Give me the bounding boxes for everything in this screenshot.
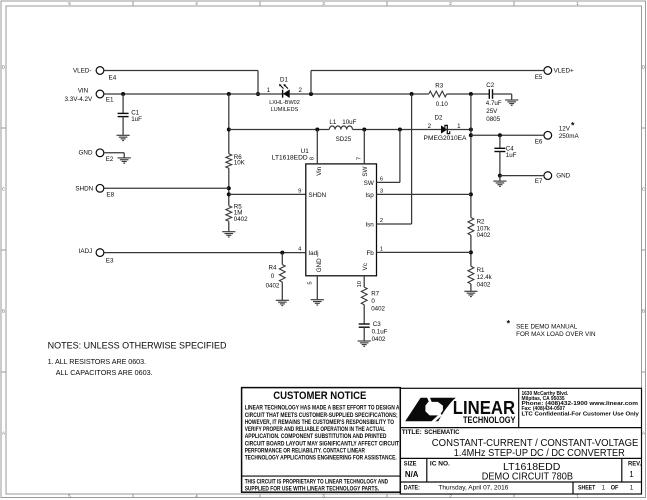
svg-text:0402: 0402 bbox=[371, 305, 385, 312]
turret E2 (GND) bbox=[96, 149, 104, 157]
svg-text:A: A bbox=[2, 431, 6, 436]
svg-text:10: 10 bbox=[357, 281, 363, 287]
svg-text:Vin: Vin bbox=[316, 166, 323, 175]
capacitor C4 bbox=[494, 148, 505, 151]
svg-text:TECHNOLOGY APPLICATIONS ENGINE: TECHNOLOGY APPLICATIONS ENGINEERING FOR … bbox=[245, 456, 397, 462]
junction SHDN pin wire bbox=[227, 192, 231, 196]
junction Vin pin 8 tap bbox=[315, 128, 319, 132]
svg-text:E6: E6 bbox=[535, 138, 543, 145]
svg-text:R1: R1 bbox=[477, 267, 485, 274]
wire C1 lead bottom bbox=[122, 117, 124, 136]
svg-text:LTC Confidential-For Customer: LTC Confidential-For Customer Use Only bbox=[522, 411, 640, 417]
svg-text:1uF: 1uF bbox=[131, 116, 142, 123]
svg-text:DATE:: DATE: bbox=[404, 485, 420, 492]
wire C2 to ground corner bbox=[493, 93, 512, 95]
wire C4 to E7 bbox=[500, 175, 544, 177]
svg-text:0402: 0402 bbox=[477, 282, 491, 289]
wire R7 to C3 bbox=[363, 305, 365, 324]
op-amp U1 LT1618EDD body bbox=[306, 164, 377, 276]
svg-text:3: 3 bbox=[380, 189, 383, 195]
svg-text:TITLE:: TITLE: bbox=[402, 429, 422, 436]
wire Vin pin 8 lead bbox=[316, 130, 318, 164]
svg-text:Thursday, April 07, 2016: Thursday, April 07, 2016 bbox=[438, 485, 508, 492]
svg-text:C3: C3 bbox=[373, 321, 381, 328]
inductor L1 bbox=[329, 126, 352, 130]
svg-text:E3: E3 bbox=[106, 258, 114, 265]
svg-text:1: 1 bbox=[267, 87, 271, 94]
svg-text:B: B bbox=[642, 309, 645, 314]
wire VLED+ top run bbox=[311, 70, 544, 72]
svg-text:1.4MHz STEP-UP DC / DC CONVERT: 1.4MHz STEP-UP DC / DC CONVERTER bbox=[454, 448, 625, 459]
wire E4 corner drop to VIN node bbox=[257, 71, 259, 95]
wire R2 to Fb node bbox=[470, 235, 472, 266]
svg-text:5: 5 bbox=[308, 281, 314, 284]
svg-text:CIRCUIT THAT MEETS CUSTOMER-SU: CIRCUIT THAT MEETS CUSTOMER-SUPPLIED SPE… bbox=[245, 413, 398, 419]
svg-text:1: 1 bbox=[630, 485, 634, 492]
svg-text:LXHL-BW02: LXHL-BW02 bbox=[269, 100, 300, 106]
svg-text:E8: E8 bbox=[106, 191, 114, 198]
svg-text:E4: E4 bbox=[109, 75, 117, 82]
svg-text:12.4k: 12.4k bbox=[477, 274, 493, 281]
resistor R6 bbox=[226, 154, 232, 168]
wire VIN line E1 to R3 bbox=[104, 93, 429, 95]
ground at C3 bbox=[358, 341, 371, 346]
svg-text:1: 1 bbox=[380, 247, 383, 253]
wire divider to SHDN pin 9 bbox=[229, 193, 306, 195]
svg-text:25V: 25V bbox=[486, 108, 498, 115]
svg-text:E7: E7 bbox=[535, 178, 543, 185]
wire D2 cathode to output node bbox=[447, 129, 471, 131]
wire E3 to Iadj pin 4 bbox=[104, 252, 306, 254]
svg-text:E5: E5 bbox=[535, 74, 543, 81]
junction E6 wire tap bbox=[469, 133, 473, 137]
wire Isn pin 2 stub bbox=[377, 223, 412, 225]
junction SW pin 7 tap bbox=[362, 128, 366, 132]
svg-text:SEE DEMO MANUAL: SEE DEMO MANUAL bbox=[516, 324, 578, 331]
svg-text:GND: GND bbox=[79, 150, 93, 157]
wire E8 to divider bbox=[104, 187, 229, 189]
svg-text:VERIFY PROPER AND RELIABLE OPE: VERIFY PROPER AND RELIABLE OPERATION IN … bbox=[245, 427, 386, 433]
turret E1 (VIN) bbox=[96, 90, 104, 98]
svg-text:4: 4 bbox=[195, 493, 198, 498]
wire C3 to ground bbox=[363, 327, 365, 341]
svg-text:LUMILEDS: LUMILEDS bbox=[271, 107, 299, 113]
svg-text:0402: 0402 bbox=[372, 336, 386, 343]
junction SW pin 6 tap bbox=[398, 128, 402, 132]
resistor R7 bbox=[361, 287, 367, 305]
svg-text:SHEET: SHEET bbox=[578, 485, 595, 492]
svg-text:10K: 10K bbox=[234, 160, 246, 167]
svg-text:Isp: Isp bbox=[365, 192, 374, 199]
turret E4 (VLED-) bbox=[96, 67, 104, 75]
svg-text:TECHNOLOGY: TECHNOLOGY bbox=[463, 415, 516, 426]
svg-text:2: 2 bbox=[298, 87, 302, 94]
svg-text:E2: E2 bbox=[106, 156, 114, 163]
wire E2 to ground bbox=[104, 152, 124, 154]
svg-text:10uF: 10uF bbox=[342, 119, 356, 126]
wire Isp pin 3 bbox=[377, 193, 471, 195]
svg-text:2: 2 bbox=[449, 1, 452, 6]
svg-text:APPLICATION. COMPONENT SUBSTI: APPLICATION. COMPONENT SUBSTITUTION AND … bbox=[245, 434, 387, 440]
ground at C1 bbox=[117, 135, 130, 140]
svg-text:VIN: VIN bbox=[78, 87, 89, 94]
svg-text:Fb: Fb bbox=[366, 250, 374, 257]
svg-text:1uF: 1uF bbox=[506, 152, 517, 159]
wire R4 lead bottom bbox=[281, 282, 283, 300]
customer notice box bbox=[242, 388, 401, 493]
svg-text:0: 0 bbox=[371, 298, 375, 305]
diode D1 (LED LXHL-BW02) bbox=[279, 84, 290, 98]
svg-text:D1: D1 bbox=[280, 77, 288, 84]
wire output to E6 bbox=[471, 134, 544, 136]
resistor R2 bbox=[468, 218, 474, 236]
wire output node vertical bbox=[470, 94, 472, 218]
wire GND pin 5 lead bbox=[316, 276, 318, 300]
wire R1 to ground bbox=[470, 284, 472, 291]
svg-text:SW: SW bbox=[364, 180, 374, 187]
svg-text:L1: L1 bbox=[329, 119, 336, 126]
wire L1 to D2 bbox=[353, 129, 442, 131]
junction C4 tap bbox=[498, 133, 502, 137]
svg-text:CUSTOMER NOTICE: CUSTOMER NOTICE bbox=[273, 390, 366, 402]
svg-text:0.1uF: 0.1uF bbox=[372, 328, 388, 335]
turret E5 (VLED+) bbox=[544, 67, 552, 75]
svg-text:12V: 12V bbox=[559, 125, 571, 132]
junction Isp tap bbox=[469, 192, 473, 196]
svg-text:OF: OF bbox=[611, 485, 619, 492]
svg-text:4.7uF: 4.7uF bbox=[486, 100, 502, 107]
svg-text:6: 6 bbox=[380, 177, 383, 183]
wire Fb pin 1 bbox=[377, 251, 471, 253]
resistor R1 bbox=[468, 266, 474, 284]
junction D2 output bbox=[469, 128, 473, 132]
turret E3 (IADJ) bbox=[96, 249, 104, 257]
wire R4 lead top bbox=[281, 253, 283, 265]
svg-text:9: 9 bbox=[298, 189, 301, 195]
wire VIN down to R6 bbox=[228, 94, 230, 154]
svg-text:C2: C2 bbox=[486, 82, 494, 89]
svg-text:IADJ: IADJ bbox=[79, 248, 93, 255]
capacitor C1 bbox=[118, 113, 129, 116]
ground at R4 bbox=[276, 300, 289, 305]
svg-text:8: 8 bbox=[310, 157, 316, 160]
Linear Technology logo glyph bbox=[405, 396, 456, 422]
svg-text:SW: SW bbox=[362, 166, 369, 176]
svg-text:0402: 0402 bbox=[477, 232, 491, 239]
svg-text:*: * bbox=[571, 121, 575, 131]
svg-text:C: C bbox=[2, 187, 6, 192]
junction D1 cathode node bbox=[309, 92, 313, 96]
wire E4 to corner bbox=[104, 70, 258, 72]
svg-text:PERFORMANCE OR RELIABILITY. C: PERFORMANCE OR RELIABILITY. CONTACT LINE… bbox=[245, 449, 366, 455]
svg-text:*: * bbox=[507, 319, 511, 329]
svg-text:4: 4 bbox=[195, 1, 198, 6]
turret E6 (12V output) bbox=[544, 131, 552, 139]
svg-text:Vc: Vc bbox=[362, 263, 369, 270]
svg-text:3: 3 bbox=[322, 493, 325, 498]
turret E7 (GND) bbox=[544, 172, 552, 180]
svg-text:THIS CIRCUIT IS PROPRIETARY TO: THIS CIRCUIT IS PROPRIETARY TO LINEAR TE… bbox=[245, 480, 389, 486]
diode D2 (schottky PMEG2010EA) bbox=[441, 125, 450, 133]
svg-text:1: 1 bbox=[602, 485, 606, 492]
svg-text:250mA: 250mA bbox=[559, 133, 580, 140]
svg-text:VLED+: VLED+ bbox=[554, 67, 574, 74]
wire VIN branch to L1 bbox=[229, 129, 329, 131]
svg-text:3.3V-4.2V: 3.3V-4.2V bbox=[65, 96, 93, 103]
svg-text:Iadj: Iadj bbox=[308, 250, 318, 257]
svg-text:VLED-: VLED- bbox=[73, 67, 92, 74]
ground at E2 bbox=[118, 158, 131, 163]
svg-text:DEMO CIRCUIT 780B: DEMO CIRCUIT 780B bbox=[482, 471, 573, 482]
svg-text:SHDN: SHDN bbox=[308, 192, 326, 199]
ground at R5 bbox=[222, 232, 235, 237]
svg-text:CIRCUIT BOARD LAYOUT MAY SIGNI: CIRCUIT BOARD LAYOUT MAY SIGNIFICANTLY A… bbox=[245, 441, 400, 447]
svg-text:N/A: N/A bbox=[405, 470, 419, 479]
svg-text:ALL CAPACITORS ARE 0603.: ALL CAPACITORS ARE 0603. bbox=[56, 368, 153, 377]
junction E8 wire bbox=[227, 186, 231, 190]
wire SW pin 7 lead bbox=[363, 130, 365, 164]
junction VIN vertical branch bbox=[227, 92, 231, 96]
wire Vc pin 10 lead bbox=[363, 276, 365, 287]
wire R5 to ground bbox=[228, 221, 230, 231]
junction R3 right node bbox=[469, 92, 473, 96]
svg-text:NOTES: UNLESS OTHERWISE SPECI: NOTES: UNLESS OTHERWISE SPECIFIED bbox=[48, 341, 227, 351]
junction E7 wire tap bbox=[498, 174, 502, 178]
svg-text:0402: 0402 bbox=[266, 283, 280, 290]
junction VLED- on VIN line bbox=[256, 92, 260, 96]
wire SW pin 6 rise bbox=[399, 130, 401, 183]
svg-text:0: 0 bbox=[271, 273, 275, 280]
svg-text:R4: R4 bbox=[269, 265, 277, 272]
resistor R4 bbox=[279, 265, 285, 283]
svg-text:GND: GND bbox=[556, 173, 570, 180]
resistor R3 bbox=[429, 91, 447, 97]
svg-text:Isn: Isn bbox=[365, 221, 374, 228]
wire C4 lead bottom bbox=[499, 152, 501, 176]
svg-text:B: B bbox=[2, 309, 5, 314]
svg-text:2: 2 bbox=[380, 218, 383, 224]
svg-text:4: 4 bbox=[298, 247, 302, 253]
wire SW pin 6 stub bbox=[377, 181, 400, 183]
capacitor C3 bbox=[359, 324, 370, 327]
wire C1 lead top bbox=[122, 94, 124, 113]
ground at C4 bbox=[493, 181, 506, 186]
svg-text:1: 1 bbox=[629, 470, 634, 479]
svg-text:SCHEMATIC: SCHEMATIC bbox=[424, 429, 460, 436]
ground at C2 bbox=[505, 100, 518, 105]
svg-text:0.10: 0.10 bbox=[436, 101, 449, 108]
junction L1 feed bbox=[227, 128, 231, 132]
svg-text:IC NO.: IC NO. bbox=[430, 461, 450, 468]
svg-text:LINEAR TECHNOLOGY HAS MADE A B: LINEAR TECHNOLOGY HAS MADE A BEST EFFORT… bbox=[245, 406, 400, 412]
svg-text:SD25: SD25 bbox=[336, 136, 352, 143]
title block grid bbox=[400, 388, 641, 494]
svg-text:SHDN: SHDN bbox=[75, 185, 93, 192]
wire E2 ground drop bbox=[123, 153, 125, 158]
svg-text:1: 1 bbox=[576, 1, 579, 6]
svg-text:HOWEVER, IT REMAINS THE CUSTOM: HOWEVER, IT REMAINS THE CUSTOMER'S RESPO… bbox=[245, 420, 395, 426]
junction C1 tap bbox=[121, 92, 125, 96]
wire R6 to SHDN node bbox=[228, 168, 230, 206]
resistor R5 bbox=[226, 206, 232, 222]
svg-text:5: 5 bbox=[68, 1, 71, 6]
turret E8 (SHDN) bbox=[96, 184, 104, 192]
junction Isn sense tap bbox=[410, 92, 414, 96]
svg-text:REV.: REV. bbox=[628, 461, 641, 468]
svg-text:5: 5 bbox=[68, 493, 71, 498]
svg-text:FOR MAX LOAD OVER VIN: FOR MAX LOAD OVER VIN bbox=[516, 331, 596, 338]
capacitor C2 bbox=[489, 89, 492, 99]
junction R4 tap bbox=[280, 251, 284, 255]
junction Fb node bbox=[469, 250, 473, 254]
svg-text:SIZE: SIZE bbox=[404, 461, 417, 468]
svg-text:GND: GND bbox=[316, 258, 323, 272]
wire D1 anode rise bbox=[310, 71, 312, 95]
svg-text:LT1618EDD: LT1618EDD bbox=[272, 155, 308, 162]
svg-text:SUPPLIED FOR USE WITH LINEAR T: SUPPLIED FOR USE WITH LINEAR TECHNOLOGY … bbox=[245, 486, 380, 492]
wire C4 ground drop bbox=[499, 176, 501, 182]
ground at pin 5 bbox=[311, 300, 324, 305]
svg-text:0402: 0402 bbox=[234, 216, 248, 223]
svg-text:R7: R7 bbox=[371, 291, 379, 298]
svg-text:1. ALL RESISTORS ARE 0603.: 1. ALL RESISTORS ARE 0603. bbox=[48, 357, 146, 366]
svg-text:D: D bbox=[2, 65, 6, 70]
svg-text:E1: E1 bbox=[106, 96, 114, 103]
svg-text:7: 7 bbox=[357, 157, 363, 160]
svg-text:D2: D2 bbox=[435, 115, 443, 122]
svg-text:0805: 0805 bbox=[486, 116, 500, 123]
svg-text:PMEG2010EA: PMEG2010EA bbox=[424, 135, 467, 142]
wire Isn rise to R3 left bbox=[411, 94, 413, 224]
wire C2 ground drop bbox=[511, 94, 513, 100]
svg-text:2: 2 bbox=[428, 123, 432, 130]
svg-text:3: 3 bbox=[322, 1, 325, 6]
svg-text:R3: R3 bbox=[435, 82, 443, 89]
wire R3 to C2 node bbox=[447, 93, 490, 95]
ground at R1 bbox=[464, 291, 477, 296]
wire C4 lead top bbox=[499, 135, 501, 148]
